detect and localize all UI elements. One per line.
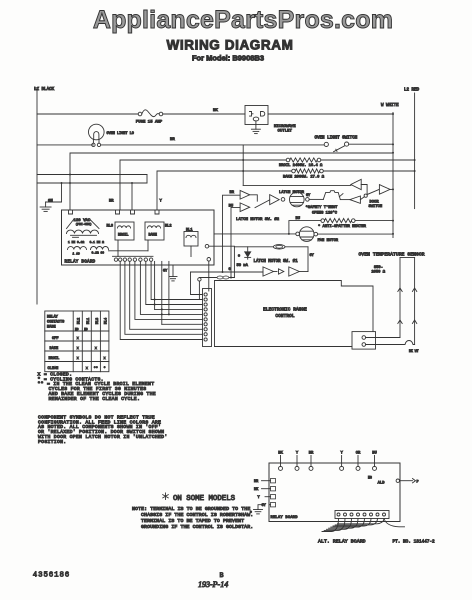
svg-text:Y: Y: [160, 200, 163, 204]
wire to ERC pin2: [199, 281, 202, 299]
wire broil to red bus: [321, 159, 415, 161]
svg-text:BAKE: BAKE: [50, 347, 59, 351]
svg-text:LATCH MOTOR SW. #2: LATCH MOTOR SW. #2: [236, 218, 280, 222]
wire fan to white bus: [318, 233, 393, 235]
svg-text:RELAY BOARD: RELAY BOARD: [271, 516, 299, 520]
svg-text:OVEN LIGHT LO: OVEN LIGHT LO: [107, 132, 134, 136]
svg-text:OPENS 120°C: OPENS 120°C: [312, 211, 338, 216]
wire vert B: [161, 261, 163, 324]
wire L1 branch upper: [37, 174, 147, 176]
wire switch to white bus: [349, 143, 393, 145]
svg-text:RL2: RL2: [165, 225, 171, 229]
svg-text:BR: BR: [170, 138, 175, 142]
terminal strip on relay board: [113, 255, 154, 257]
switch door blade: [367, 190, 379, 195]
wire sensor right lead: [414, 258, 416, 345]
wire hook: [250, 195, 258, 201]
wire vert C: [168, 261, 170, 314]
wire vert A: [154, 261, 156, 309]
electronic range control box U1: [215, 281, 374, 347]
svg-text:GY: GY: [310, 254, 315, 258]
thermostat safety 120C: [323, 191, 340, 200]
svg-text:RL3: RL3: [95, 318, 99, 324]
svg-text:x: x: [86, 367, 88, 371]
svg-text:Y: Y: [296, 452, 299, 456]
connector triangle B: [289, 267, 300, 276]
svg-text:G: G: [229, 268, 231, 272]
wire fan line: [214, 233, 296, 235]
svg-text:x: x: [77, 357, 79, 361]
svg-text:*SAFETY T'HMST: *SAFETY T'HMST: [306, 205, 339, 210]
svg-text:MADE: MADE: [47, 326, 56, 330]
svg-text:GN: GN: [48, 200, 53, 204]
ERC connector strip: [203, 289, 212, 347]
wire bake feed: [157, 171, 292, 210]
svg-text:RL3: RL3: [107, 225, 113, 229]
svg-text:x: x: [77, 347, 79, 351]
svg-text:SWITCH: SWITCH: [369, 205, 383, 209]
svg-text:NOTE: TERMINAL IS TO BE GROUND: NOTE: TERMINAL IS TO BE GROUNDED TO THE: [132, 506, 250, 512]
svg-text:*: *: [104, 366, 106, 371]
fuse F1 15 AMP: [138, 112, 142, 116]
svg-text:B: B: [220, 572, 224, 580]
wire mid line to white bus: [70, 153, 393, 210]
wire L1 to fuse: [37, 113, 138, 115]
terminal RB right upper: [205, 244, 209, 248]
terminal RB bottom right: [207, 258, 211, 262]
svg-text:BROIL: BROIL: [49, 357, 60, 361]
relay board RB1 outline: [62, 210, 215, 265]
svg-text:BR: BR: [230, 191, 235, 195]
pivot terminal: [360, 197, 364, 200]
svg-text:CONTROL: CONTROL: [275, 314, 294, 319]
svg-text:193-P-14: 193-P-14: [198, 580, 228, 589]
connector triangle 1: [351, 179, 361, 189]
svg-text:*: *: [238, 254, 241, 260]
resistor broil element 2400W: [286, 158, 290, 162]
svg-text:CHASSIS IF THE CONTROL IS ROBE: CHASSIS IF THE CONTROL IS ROBERTSHAW.: [141, 512, 253, 518]
diode D1 50mA: [247, 247, 249, 252]
ground outlet: [251, 128, 260, 130]
svg-text:1 AC: 1 AC: [73, 253, 80, 256]
connector arrows sensor: [398, 288, 402, 292]
svg-text:RELAY BOARD: RELAY BOARD: [65, 261, 96, 265]
wire capsule line: [199, 277, 234, 279]
wire terminal to ERC strip: [208, 261, 210, 291]
wire SW1 right: [307, 247, 309, 272]
lamp oven light: [89, 124, 105, 140]
svg-text:WIRING DIAGRAM: WIRING DIAGRAM: [167, 38, 294, 53]
ground alt board: [258, 505, 262, 510]
connector triangle A: [263, 267, 274, 276]
note on some models: [163, 493, 169, 500]
svg-text:GROUNDING IF THE CONTROL IS GO: GROUNDING IF THE CONTROL IS GOLDSTAR.: [141, 524, 253, 530]
svg-text:GY: GY: [306, 194, 311, 198]
svg-text:BK: BK: [213, 109, 218, 113]
connector BU triangle: [240, 203, 250, 212]
svg-text:Y: Y: [258, 496, 261, 500]
wire L1 to oven light: [37, 144, 93, 146]
svg-text:BAKE 2000W. 27.0 Ω: BAKE 2000W. 27.0 Ω: [283, 176, 325, 180]
ERC sensor connector box: [352, 332, 376, 350]
wire fuse to microwave outlet: [163, 113, 245, 115]
svg-text:FUSE 15 AMP: FUSE 15 AMP: [136, 121, 163, 125]
svg-text:POSITION.: POSITION.: [38, 439, 66, 445]
svg-text:AppliancePartsPros.com: AppliancePartsPros.com: [93, 6, 393, 34]
svg-text:RL4: RL4: [104, 318, 108, 324]
wire broil feed: [120, 160, 286, 210]
wire L1 branch lower: [37, 182, 147, 184]
wire broil tap to latch: [242, 145, 244, 186]
svg-text:ALT. RELAY BOARD: ALT. RELAY BOARD: [318, 539, 366, 545]
wire outlet to ground: [255, 121, 257, 129]
connector triangle 2: [350, 196, 361, 203]
svg-text:BU: BU: [372, 452, 377, 456]
svg-text:x: x: [77, 337, 79, 341]
svg-text:BR: BR: [309, 452, 314, 456]
wire thermostat to connector: [340, 199, 350, 201]
svg-text:TERMINAL IS TO BE TAPED TO PRE: TERMINAL IS TO BE TAPED TO PREVENT: [141, 518, 244, 524]
alt board bottom connector: [335, 511, 389, 519]
svg-text:GY: GY: [163, 270, 168, 274]
svg-text:RL2: RL2: [77, 318, 81, 324]
wire sensor left lead: [399, 258, 401, 338]
svg-text:OVEN LIGHT SWITCH: OVEN LIGHT SWITCH: [315, 137, 358, 141]
svg-text:OUTLET: OUTLET: [278, 129, 293, 133]
svg-text:**: **: [94, 366, 98, 371]
svg-text:Y: Y: [340, 452, 343, 456]
svg-text:W WHITE: W WHITE: [381, 104, 399, 108]
svg-text:BR: BR: [254, 480, 259, 484]
wire SW1 left: [233, 247, 235, 278]
svg-text:ON SOME MODELS: ON SOME MODELS: [173, 495, 236, 503]
svg-text:50 mA: 50 mA: [237, 264, 249, 268]
svg-text:BROIL: BROIL: [118, 234, 129, 238]
connector triangle to motor: [270, 195, 280, 205]
svg-text:RL1: RL1: [86, 318, 90, 324]
svg-text:OR: OR: [356, 452, 361, 456]
svg-text:RELAY: RELAY: [47, 316, 59, 320]
wire sensor to ERC box: [366, 337, 400, 339]
svg-text:(PRI-SEC): (PRI-SEC): [76, 222, 92, 226]
svg-text:FAN MOTOR: FAN MOTOR: [318, 239, 339, 243]
svg-text:LATCH MOTOR SW. #1: LATCH MOTOR SW. #1: [254, 260, 299, 264]
svg-text:L2 RED: L2 RED: [404, 89, 420, 93]
relay RL2 bake relay: [145, 222, 164, 240]
wire to ERC pin1: [191, 272, 203, 295]
svg-text:DOOR: DOOR: [370, 201, 380, 205]
wire triangle1 hook: [361, 185, 367, 194]
svg-text:BR: BR: [109, 200, 114, 204]
svg-text:OFF: OFF: [52, 337, 58, 341]
svg-text:PT. NO. 131447-2: PT. NO. 131447-2: [393, 540, 436, 545]
svg-text:For Model: B9908B3: For Model: B9908B3: [192, 54, 264, 63]
microwave outlet J1: [245, 106, 268, 125]
resistor bake element 2000W: [292, 169, 296, 173]
table relay contacts: [45, 311, 109, 372]
resistor anti-spatter heater: [321, 219, 325, 223]
plug pins on relay board top: [69, 210, 73, 214]
svg-text:CLEAN: CLEAN: [48, 367, 59, 371]
wire oven light to switch: [101, 144, 324, 146]
wire SW1 input: [191, 271, 264, 273]
svg-text:BK: BK: [254, 488, 259, 492]
wire outlet to white bus: [268, 113, 393, 115]
wire motor to thermostat: [309, 198, 323, 200]
svg-text:P: P: [417, 481, 419, 485]
svg-text:REMAINDER OF THE CLEAN CYCLE.: REMAINDER OF THE CLEAN CYCLE.: [49, 396, 141, 402]
svg-text:ELECTRONIC RANGE: ELECTRONIC RANGE: [263, 308, 307, 313]
wire SW1 top: [209, 245, 235, 247]
svg-text:x: x: [95, 347, 97, 351]
svg-text:ALD: ALD: [378, 482, 386, 486]
svg-text:1 MH 0.3Ω: 1 MH 0.3Ω: [68, 241, 84, 244]
svg-text:2650 Ω: 2650 Ω: [371, 271, 385, 275]
svg-text:BK WT: BK WT: [409, 349, 419, 353]
connector door switch triangle: [379, 185, 390, 195]
wire branch to relay board: [131, 183, 133, 210]
connector BR triangle: [240, 191, 250, 200]
switch latch motor SW2 blade: [255, 200, 270, 208]
alt relay board outline: [269, 463, 400, 522]
wire heater to white bus: [355, 220, 393, 222]
svg-text:x: x: [104, 357, 106, 361]
capsule connector: [273, 245, 285, 249]
svg-text:* ANTI-SPATTER HEATER: * ANTI-SPATTER HEATER: [318, 224, 367, 229]
svg-text:HG: HG: [368, 476, 372, 480]
wire bundle bends to ERC connector: [151, 261, 202, 299]
wire triangle B out: [299, 271, 308, 273]
wire bake to red bus: [323, 170, 414, 172]
svg-text:CONTACTS: CONTACTS: [47, 321, 64, 325]
svg-text:0.1Ω 30: 0.1Ω 30: [92, 252, 105, 255]
svg-text:BROIL 2400W. 16.4 Ω: BROIL 2400W. 16.4 Ω: [279, 164, 323, 168]
svg-text:BAKE: BAKE: [149, 234, 157, 238]
wires alt connector harness: [322, 519, 339, 532]
wire filter link: [109, 250, 149, 252]
svg-text:6.1 MH Ω: 6.1 MH Ω: [90, 241, 105, 244]
svg-text:850-: 850-: [374, 266, 383, 270]
svg-text:BK: BK: [278, 452, 283, 456]
motor M2 fan motor: [296, 232, 300, 236]
svg-text:4356186: 4356186: [33, 572, 70, 580]
wire door switch to white: [390, 188, 393, 190]
svg-text:GY: GY: [262, 504, 267, 508]
connector arrow: [274, 271, 278, 273]
svg-text:NO: NO: [84, 328, 88, 331]
wire jog: [146, 175, 148, 184]
svg-text:OVEN TEMPERATURE SENSOR: OVEN TEMPERATURE SENSOR: [359, 252, 425, 258]
svg-text:NC: NC: [75, 328, 79, 331]
